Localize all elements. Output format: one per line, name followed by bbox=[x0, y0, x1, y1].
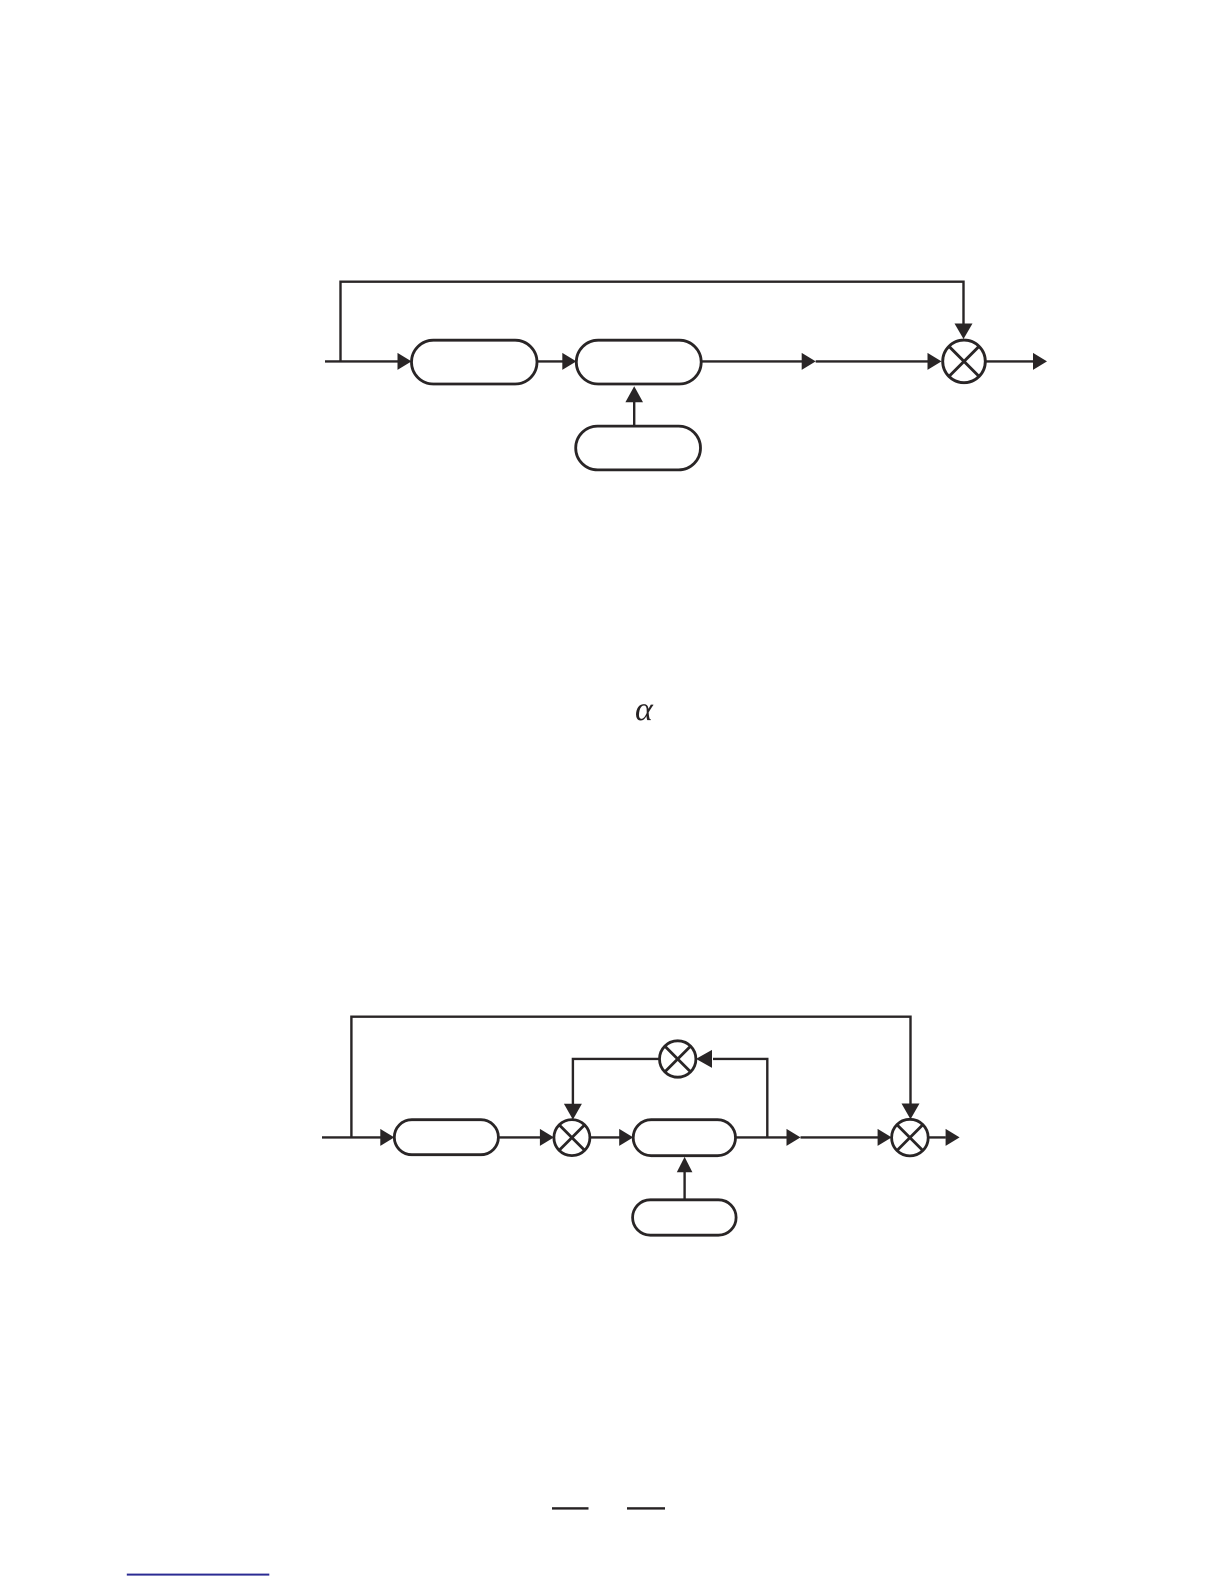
diagram 1 : feedback wire (top loop) bbox=[341, 282, 964, 362]
diagram 2 : block A (stadium) bbox=[394, 1120, 498, 1155]
svg-text:α: α bbox=[635, 691, 654, 728]
diagram 2 : input arrowhead bbox=[380, 1129, 394, 1146]
diagram 1 : multiplier M1 (circle with X) bbox=[943, 340, 986, 383]
diagram 2 : arrowhead into multiplier MA bbox=[540, 1129, 554, 1146]
fraction bar 2 bbox=[627, 1507, 665, 1509]
diagram 2 : inner loop riser wire (junction to multiplier MC) bbox=[713, 1059, 767, 1138]
diagram 2 : wire block B to mid arrow (through junction) bbox=[736, 1136, 788, 1138]
diagram 2 : down arrowhead into multiplier MA bbox=[564, 1104, 582, 1120]
diagram 1 : wire parameter block up to block 2 bbox=[633, 402, 635, 426]
diagram 2 : wire multiplier MA to block B bbox=[590, 1136, 620, 1138]
diagram 2 : arrowhead into multiplier MB bbox=[878, 1129, 892, 1146]
diagram 2 : mid arrowhead bbox=[787, 1129, 801, 1146]
diagram 2 : wire parameter block up to block B bbox=[683, 1172, 685, 1200]
diagram 1 : block 1 (stadium) bbox=[412, 340, 538, 384]
footnote rule (blue) bbox=[127, 1574, 269, 1576]
diagram 1 : input arrowhead bbox=[398, 353, 412, 370]
diagram 2 : block B (stadium) bbox=[633, 1120, 735, 1156]
diagram 2 : up arrowhead into block B bbox=[677, 1157, 693, 1172]
diagram 2 : multiplier MB (circle with X) bbox=[892, 1119, 929, 1156]
diagram 2 : multiplier MC (circle with X, top) bbox=[660, 1041, 696, 1077]
diagram 1 : parameter block (stadium below block 2) bbox=[576, 426, 701, 470]
diagram 2 : arrowhead into multiplier MC (pointing left) bbox=[696, 1050, 712, 1068]
diagram 2 : output arrowhead bbox=[946, 1129, 960, 1146]
diagram 1 : up arrowhead into block 2 bbox=[625, 386, 643, 402]
diagram 2 : wire mid arrow to multiplier MB bbox=[801, 1136, 879, 1138]
diagram 2 : arrowhead into block B bbox=[619, 1129, 633, 1146]
diagram 1 : wire block2 to mid arrow bbox=[701, 360, 802, 362]
diagram 2 : multiplier MA (circle with X) bbox=[554, 1120, 590, 1156]
diagram 2 : wire block A to multiplier MA bbox=[498, 1136, 540, 1138]
diagram 2 : input wire bbox=[322, 1136, 381, 1138]
diagram 1 : mid arrowhead bbox=[802, 353, 816, 370]
diagram 1 : output arrowhead bbox=[1033, 353, 1047, 370]
diagram 2 : parameter block (stadium below block B) bbox=[633, 1200, 737, 1235]
diagram 1 : arrowhead into multiplier M1 bbox=[928, 353, 942, 370]
diagram 2 : outer feedback arrowhead into multiplier MB bbox=[902, 1104, 920, 1120]
diagram 1 : wire block1 to block2 bbox=[537, 360, 563, 362]
diagram 2 : outer feedback wire bbox=[351, 1017, 910, 1138]
diagram 1 : input wire bbox=[325, 360, 399, 362]
fraction bar 1 bbox=[552, 1507, 589, 1509]
diagram 1 : arrowhead into block 2 bbox=[562, 353, 576, 370]
diagram 2 : wire multiplier MC down to multiplier MA bbox=[573, 1059, 660, 1104]
diagram 1 : wire mid arrow to multiplier bbox=[816, 360, 928, 362]
diagram 1 : block 2 (stadium) bbox=[576, 340, 701, 384]
diagram 1 : feedback arrowhead into multiplier bbox=[955, 324, 973, 340]
diagram 2 : output wire bbox=[928, 1136, 945, 1138]
diagram 1 : output wire bbox=[985, 360, 1033, 362]
